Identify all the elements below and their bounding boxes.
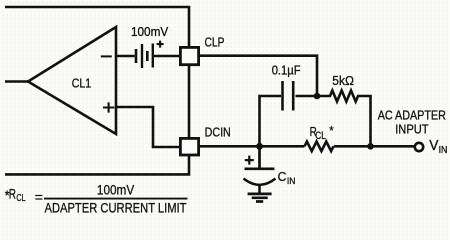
- svg-text:100mV: 100mV: [131, 24, 169, 39]
- junction node dot at CIN tap: [256, 143, 263, 150]
- wire CLP right to cap/resistor node: [199, 56, 317, 96]
- wire vertical between CLP and DCIN: [188, 66, 191, 138]
- svg-text:DCIN: DCIN: [205, 125, 231, 140]
- VIN terminal circle: [415, 143, 423, 151]
- svg-text:INPUT: INPUT: [395, 122, 429, 137]
- wire cap left plate down to bottom rail: [260, 96, 282, 146]
- svg-text:*: *: [329, 123, 333, 138]
- wire battery to CLP pin: [154, 55, 180, 58]
- capacitor CIN stem and straight top plate: [245, 146, 275, 169]
- CIN plus sign: [245, 156, 254, 165]
- svg-text:IN: IN: [287, 176, 296, 187]
- fraction bar of formula: [44, 198, 188, 200]
- svg-text:100mV: 100mV: [97, 182, 135, 198]
- pin box CLP: [180, 47, 198, 64]
- svg-text:IN: IN: [439, 145, 448, 156]
- junction node dot at cap/5k: [314, 93, 321, 100]
- wire noninverting input to DCIN pin: [116, 107, 180, 147]
- svg-text:CLP: CLP: [205, 35, 225, 50]
- battery plus sign: [157, 41, 164, 48]
- battery 100mV offset source plates: [135, 49, 138, 63]
- ground symbol: [248, 193, 272, 196]
- svg-text:=: =: [35, 190, 43, 206]
- svg-text:ADAPTER CURRENT LIMIT: ADAPTER CURRENT LIMIT: [45, 201, 187, 216]
- svg-text:CL: CL: [315, 130, 326, 142]
- svg-text:5kΩ: 5kΩ: [332, 73, 354, 88]
- wire top rail from left edge to vertical drop: [5, 7, 189, 46]
- op-amp CL1 current-limit comparator triangle: [28, 27, 116, 134]
- svg-text:V: V: [429, 138, 438, 154]
- svg-text:CL: CL: [16, 193, 26, 204]
- resistor RCL zigzag: [305, 142, 334, 152]
- svg-text:C: C: [278, 169, 287, 184]
- svg-text:CL1: CL1: [72, 76, 91, 91]
- bottom rail DCIN to RCL: [199, 145, 305, 148]
- svg-text:AC ADAPTER: AC ADAPTER: [378, 107, 446, 122]
- wire DCIN bottom to lower-left rail: [5, 156, 189, 174]
- wire RCL to VIN terminal: [334, 145, 414, 148]
- svg-text:0.1µF: 0.1µF: [272, 63, 301, 78]
- capacitor 0.1uF plates: [292, 81, 295, 111]
- junction node dot at 5k/RCL/VIN: [367, 143, 374, 150]
- op-amp inverting input marker (minus): [101, 55, 112, 57]
- wire inverting input to battery: [116, 55, 135, 58]
- wire op-amp output to left edge: [5, 80, 28, 83]
- pin box DCIN: [180, 138, 198, 155]
- wire node to cap right plate: [296, 95, 318, 98]
- wire CIN stem to ground: [258, 185, 261, 194]
- op-amp noninverting input marker (plus): [103, 102, 114, 112]
- svg-text:R: R: [9, 186, 16, 202]
- capacitor CIN curved bottom plate: [244, 179, 276, 185]
- resistor 5k ohm zigzag with leads and right drop to node: [317, 91, 371, 147]
